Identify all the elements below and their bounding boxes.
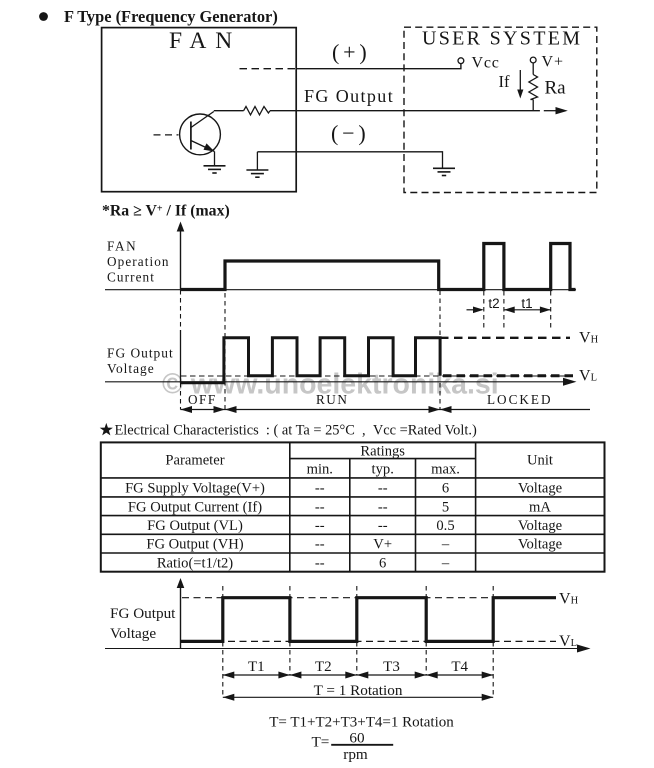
svg-text:--: -- <box>315 499 325 515</box>
svg-text:T=: T= <box>312 734 330 751</box>
dimension T1..T4 line <box>223 674 493 676</box>
guide dashed at run start <box>224 261 226 410</box>
axis bottom chart vertical <box>180 584 182 649</box>
svg-text:0.5: 0.5 <box>436 518 454 534</box>
svg-text:min.: min. <box>307 462 333 478</box>
svg-text:V+: V+ <box>542 54 565 71</box>
terminal Vcc <box>458 58 464 64</box>
table caption star <box>100 423 113 436</box>
svg-text:6: 6 <box>379 555 386 571</box>
FAN box <box>102 28 297 192</box>
svg-text:(+): (+) <box>332 40 370 65</box>
wire (-) to FAN ground <box>256 152 258 170</box>
waveform fan operation current <box>181 244 576 290</box>
table frame <box>101 442 605 571</box>
svg-text:Ratings: Ratings <box>360 444 405 460</box>
axis fg voltage (vertical) <box>180 290 182 330</box>
dimension OFF <box>181 409 226 411</box>
current If arrow <box>519 70 521 91</box>
wire emitter to ground <box>214 152 216 166</box>
svg-text:FG Output (VL): FG Output (VL) <box>147 518 243 534</box>
svg-text:USER SYSTEM: USER SYSTEM <box>422 28 582 50</box>
svg-text:–: – <box>441 555 450 571</box>
resistor Ra <box>529 75 538 100</box>
table text <box>125 444 562 572</box>
svg-text:T2: T2 <box>315 659 332 675</box>
dimension T = 1 Rotation <box>223 696 493 698</box>
svg-text:t2: t2 <box>488 296 499 311</box>
svg-text:--: -- <box>315 555 325 571</box>
svg-text:Ra: Ra <box>545 78 567 99</box>
wire FG output arrow <box>544 110 556 112</box>
svg-text:Vcc: Vcc <box>472 55 500 72</box>
svg-text:If: If <box>499 72 510 91</box>
guide dashed t2 left <box>483 291 485 330</box>
dimension LOCKED <box>440 409 590 411</box>
ground (transistor emitter) <box>204 166 226 173</box>
svg-text:FG Output: FG Output <box>107 346 174 361</box>
svg-text:FG Output: FG Output <box>304 86 394 106</box>
wire base lead (dashed) <box>154 134 179 136</box>
axis fan current baseline <box>105 289 576 291</box>
wire Ra to FG line <box>532 100 534 111</box>
svg-text:5: 5 <box>442 499 449 515</box>
svg-text:Unit: Unit <box>527 453 553 469</box>
svg-text:Voltage: Voltage <box>518 481 562 497</box>
svg-text:--: -- <box>315 481 325 497</box>
guide dashed at locked start <box>439 291 441 338</box>
guide dashed t2 right <box>503 291 505 330</box>
svg-text:Electrical Characteristics :: Electrical Characteristics : ( at Ta = 2… <box>115 423 477 439</box>
svg-text:VH: VH <box>579 329 599 346</box>
svg-text:VH: VH <box>559 590 579 607</box>
svg-text:Parameter: Parameter <box>165 453 224 469</box>
axis fan current (vertical arrow) <box>180 227 182 290</box>
level VL dashed (bottom) <box>182 640 556 642</box>
svg-text:6: 6 <box>442 481 449 497</box>
svg-text:Voltage: Voltage <box>518 518 562 534</box>
svg-text:--: -- <box>378 518 388 534</box>
waveform fg bottom <box>181 598 557 642</box>
svg-text:mA: mA <box>529 499 551 515</box>
svg-text:FG Output Current (If): FG Output Current (If) <box>128 499 262 515</box>
svg-text:T= T1+T2+T3+T4=1 Rotation: T= T1+T2+T3+T4=1 Rotation <box>269 715 454 731</box>
transistor Q1 <box>180 114 221 155</box>
guide dashed t1 right <box>550 291 552 330</box>
svg-text:(−): (−) <box>331 121 369 146</box>
svg-text:–: – <box>441 537 450 553</box>
svg-text:T3: T3 <box>383 659 400 675</box>
svg-text:T = 1 Rotation: T = 1 Rotation <box>314 682 403 699</box>
svg-text:FG Supply Voltage(V+): FG Supply Voltage(V+) <box>125 481 265 497</box>
wire (-) <box>257 152 442 168</box>
svg-text:FAN: FAN <box>169 28 241 54</box>
svg-text:max.: max. <box>431 462 460 478</box>
dimension RUN <box>225 409 440 411</box>
svg-text:--: -- <box>378 499 388 515</box>
svg-text:Ratio(=t1/t2): Ratio(=t1/t2) <box>157 555 233 571</box>
svg-text:VL: VL <box>559 633 577 650</box>
ground (FAN minus) <box>246 170 268 177</box>
svg-text:Voltage: Voltage <box>107 361 155 376</box>
dimension t2 <box>467 309 483 311</box>
svg-text:--: -- <box>315 518 325 534</box>
axis fg time arrow <box>105 381 567 383</box>
wire FG output: collector to resistor <box>214 110 244 112</box>
level VH dashed (bottom) <box>182 597 493 599</box>
svg-text:LOCKED: LOCKED <box>487 392 552 407</box>
svg-text:T4: T4 <box>451 659 468 675</box>
labels T1 T2 T3 T4 <box>248 659 469 675</box>
terminal V+ <box>530 57 536 63</box>
title bullet <box>39 12 48 21</box>
svg-text:FAN: FAN <box>107 239 137 254</box>
svg-text:FG Output: FG Output <box>110 605 176 622</box>
svg-text:RUN: RUN <box>316 392 348 407</box>
waveform fg output voltage <box>181 338 441 383</box>
svg-text:V+: V+ <box>373 537 392 553</box>
resistor R1 (FG series) <box>244 107 270 115</box>
wire V+ to Ra <box>532 63 534 75</box>
svg-text:rpm: rpm <box>343 746 368 763</box>
svg-text:F Type (Frequency Generator): F Type (Frequency Generator) <box>64 7 278 26</box>
ground (user system) <box>433 168 455 175</box>
svg-text:Operation: Operation <box>107 254 170 269</box>
svg-text:--: -- <box>378 481 388 497</box>
USER SYSTEM box (dashed) <box>404 27 597 192</box>
wire FG output to user system <box>270 110 540 112</box>
axis bottom chart horizontal <box>105 648 581 650</box>
wire (+) dashed segment inside FAN <box>240 68 297 70</box>
svg-text:FG Output (VH): FG Output (VH) <box>146 537 243 553</box>
svg-text:Voltage: Voltage <box>110 625 156 642</box>
guide dashed T boundaries <box>223 586 493 697</box>
level VH dashed thin (locked) <box>440 337 570 339</box>
waveform fg locked level (bold dashed VL) <box>443 374 576 377</box>
svg-text:typ.: typ. <box>372 462 394 478</box>
level VL dashed thin <box>181 375 570 377</box>
svg-text:*Ra ≥ V+ / If (max): *Ra ≥ V+ / If (max) <box>102 203 230 220</box>
svg-text:t1: t1 <box>521 296 532 311</box>
svg-text:OFF: OFF <box>188 392 217 407</box>
dimension t1 <box>504 309 551 311</box>
svg-text:T1: T1 <box>248 659 265 675</box>
wire (+) solid to Vcc <box>296 64 461 69</box>
svg-text:VL: VL <box>579 367 597 384</box>
svg-text:Current: Current <box>107 270 155 285</box>
svg-text:--: -- <box>315 537 325 553</box>
svg-text:Voltage: Voltage <box>518 537 562 553</box>
